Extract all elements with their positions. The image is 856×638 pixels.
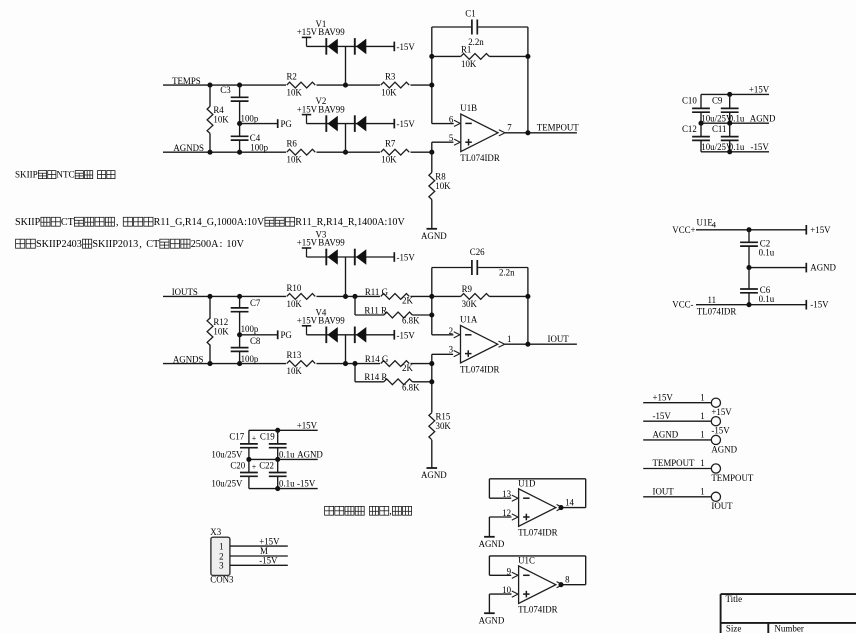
- connector IOUT: [643, 496, 711, 498]
- svg-text:BAV99: BAV99: [318, 238, 345, 248]
- capacitor C4: [239, 124, 241, 137]
- node R14_R junction: [429, 379, 434, 384]
- resistor R11_G: [381, 294, 410, 300]
- svg-text:R7: R7: [385, 139, 396, 149]
- svg-text:AGND: AGND: [810, 263, 836, 273]
- node TEMPOUT junction: [525, 130, 530, 135]
- svg-text:10K: 10K: [287, 366, 303, 376]
- node C11 bottom junction: [727, 149, 732, 154]
- node IOUTS/R12 junction: [207, 294, 212, 299]
- svg-text:2: 2: [449, 326, 453, 336]
- node PG junction: [237, 121, 242, 126]
- node IOUT junction: [525, 342, 530, 347]
- wire U1C feedback loop: [489, 555, 585, 557]
- capacitor C2: [748, 230, 750, 243]
- ground AGND below R15: [427, 467, 438, 469]
- svg-text:R9: R9: [462, 284, 473, 294]
- node R11 branch junction: [352, 294, 357, 299]
- svg-text:1: 1: [700, 430, 704, 440]
- svg-text:CON3: CON3: [210, 575, 234, 585]
- svg-text:R15: R15: [436, 412, 451, 422]
- svg-text:1: 1: [219, 541, 223, 551]
- wire TEMPS line: [163, 84, 286, 86]
- resistor R7: [381, 149, 410, 155]
- svg-text:C22: C22: [259, 460, 274, 470]
- capacitor C20: [248, 459, 250, 472]
- capacitor C11: [729, 123, 731, 136]
- wire +15V rail: [701, 93, 769, 95]
- svg-text:TEMPS: TEMPS: [172, 76, 201, 86]
- capacitor C19: [277, 430, 279, 444]
- svg-text:R14 G: R14 G: [365, 354, 389, 364]
- svg-text:Number: Number: [774, 624, 804, 633]
- svg-text:R14 R: R14 R: [364, 372, 387, 382]
- resistor R6: [287, 149, 316, 155]
- node R3 junction: [429, 83, 434, 88]
- svg-text:+: +: [252, 434, 257, 443]
- svg-text:C9: C9: [712, 95, 723, 105]
- svg-text:-15V: -15V: [711, 426, 730, 436]
- title block frame: [721, 593, 856, 595]
- svg-text:-15V: -15V: [653, 411, 672, 421]
- svg-text:BAV99: BAV99: [318, 27, 345, 37]
- wire inverting input net: [431, 27, 433, 124]
- resistor R8: [431, 152, 433, 172]
- svg-text:R11_R,R14_R,1400A:10V: R11_R,R14_R,1400A:10V: [295, 217, 405, 228]
- node C10 bottom junction: [698, 121, 703, 126]
- svg-text:,: ,: [116, 217, 119, 228]
- capacitor C3: [239, 85, 241, 97]
- node pin5/R8 junction: [429, 150, 434, 155]
- wire pin10 to ground: [489, 593, 511, 595]
- wire +15V rail 2: [249, 429, 318, 431]
- svg-text:VCC+: VCC+: [672, 225, 695, 235]
- op-amp U1C: [519, 566, 556, 604]
- connector AGND: [643, 439, 711, 441]
- diode V1 BAV99 clamp: [302, 36, 311, 38]
- wire IOUTS line: [163, 295, 286, 297]
- svg-text:30K: 30K: [462, 299, 478, 309]
- wire VCC- to -15V: [696, 304, 806, 306]
- capacitor C6: [748, 268, 750, 289]
- svg-text:2K: 2K: [402, 363, 413, 373]
- wire V3 node to IOUTS: [345, 257, 347, 296]
- svg-text:0.1u: 0.1u: [759, 294, 775, 304]
- svg-text:C1: C1: [465, 9, 475, 19]
- svg-text:+15V: +15V: [297, 104, 318, 114]
- svg-text:C11: C11: [712, 124, 726, 134]
- wire AGNDS line: [163, 151, 286, 153]
- svg-text:AGNDS: AGNDS: [173, 354, 204, 364]
- svg-text:SKIIP: SKIIP: [15, 170, 38, 180]
- ground AGND U1C: [484, 612, 495, 614]
- resistor R10: [287, 294, 316, 300]
- node PG junction 2: [237, 332, 242, 337]
- svg-text:R4: R4: [213, 105, 224, 115]
- svg-text:SKIIP: SKIIP: [15, 217, 41, 228]
- svg-text:0.1u: 0.1u: [759, 247, 775, 257]
- svg-text:+15V: +15V: [259, 536, 280, 546]
- node R1 left junction: [429, 54, 434, 59]
- svg-text:-15V: -15V: [751, 142, 770, 152]
- svg-text:+15V: +15V: [711, 407, 732, 417]
- svg-text:BAV99: BAV99: [318, 104, 345, 114]
- svg-text:CT: CT: [146, 239, 160, 250]
- svg-text:C7: C7: [250, 298, 261, 308]
- diode V4 BAV99 clamp: [302, 325, 311, 327]
- wire -15V rail 2: [249, 488, 318, 490]
- svg-text:TEMPOUT: TEMPOUT: [711, 473, 753, 483]
- svg-text:R13: R13: [287, 350, 302, 360]
- svg-text:-15V: -15V: [397, 330, 416, 340]
- svg-text:SKIIP2013: SKIIP2013: [92, 239, 138, 250]
- svg-text:C8: C8: [250, 336, 261, 346]
- node TEMPS/V1 junction: [343, 83, 348, 88]
- node C19 bottom junction: [275, 457, 280, 462]
- wire V2 node to AGNDS: [345, 124, 347, 153]
- text SKIIP CT note line2: [16, 239, 25, 248]
- svg-text:U1E: U1E: [697, 217, 713, 227]
- wire VCC+ to +15V: [696, 229, 806, 231]
- ground AGND U1D: [484, 536, 495, 538]
- resistor R14_G: [381, 361, 410, 367]
- power port PG: [277, 119, 279, 128]
- node C17 bottom junction: [246, 457, 251, 462]
- wire PG stub 2: [240, 334, 278, 336]
- svg-text:0.1u: 0.1u: [279, 479, 295, 489]
- svg-text:C26: C26: [470, 247, 485, 257]
- wire V4 node to AGNDS: [345, 335, 347, 364]
- op-amp U1A: [461, 325, 498, 363]
- svg-text:AGND: AGND: [750, 113, 776, 123]
- svg-text:+15V: +15V: [749, 85, 770, 95]
- svg-text:6: 6: [449, 114, 454, 124]
- svg-text:,: ,: [389, 506, 392, 517]
- capacitor C26: [432, 267, 471, 269]
- svg-text:10K: 10K: [213, 327, 229, 337]
- svg-text:-15V: -15V: [397, 119, 416, 129]
- svg-text:10K: 10K: [381, 88, 397, 98]
- node R9 left junction: [429, 294, 434, 299]
- wire AGND rail: [701, 122, 769, 124]
- svg-text:100p: 100p: [241, 354, 259, 364]
- svg-text:,: ,: [139, 239, 142, 250]
- svg-text:10K: 10K: [435, 181, 451, 191]
- svg-text:AGND: AGND: [711, 444, 737, 454]
- node C2/C6 junction: [746, 265, 751, 270]
- diode V2 BAV99 clamp: [302, 114, 311, 116]
- resistor R11_R: [354, 296, 356, 315]
- capacitor C8: [239, 335, 241, 348]
- svg-text:PG: PG: [281, 119, 293, 129]
- svg-text:10K: 10K: [461, 59, 477, 69]
- svg-text:+15V: +15V: [653, 392, 674, 402]
- wire PG stub: [240, 123, 278, 125]
- svg-text:+15V: +15V: [297, 238, 318, 248]
- svg-text:10u/25V: 10u/25V: [211, 479, 243, 489]
- power port +15V: [805, 225, 807, 235]
- resistor R12: [209, 296, 211, 318]
- svg-text:-15V: -15V: [397, 42, 416, 52]
- ground AGND below R8: [427, 228, 438, 230]
- svg-text:100p: 100p: [241, 113, 259, 123]
- svg-text:C3: C3: [220, 85, 231, 95]
- node AGNDS/V2 junction: [343, 150, 348, 155]
- connector +15V: [643, 402, 711, 404]
- svg-text:IOUT: IOUT: [653, 487, 675, 497]
- svg-text:CT: CT: [61, 217, 74, 228]
- svg-text:14: 14: [565, 497, 574, 507]
- svg-text:10K: 10K: [287, 88, 303, 98]
- svg-text:IOUT: IOUT: [711, 501, 733, 511]
- svg-text:AGNDS: AGNDS: [173, 143, 204, 153]
- svg-text:30K: 30K: [436, 421, 452, 431]
- svg-text:-15V: -15V: [810, 300, 829, 310]
- svg-text:7: 7: [507, 123, 512, 133]
- diode V3 BAV99 clamp: [302, 247, 311, 249]
- node R11_R junction: [429, 312, 434, 317]
- resistor R13: [287, 361, 316, 367]
- node AGNDS/C8 junction: [237, 361, 242, 366]
- power port -15V: [805, 300, 807, 310]
- node C22 bottom junction: [275, 486, 280, 491]
- svg-text:10K: 10K: [381, 155, 397, 165]
- wire pin12 to ground: [489, 516, 511, 518]
- op-amp U1B: [461, 114, 498, 152]
- svg-text:3: 3: [219, 561, 224, 571]
- svg-text:AGND: AGND: [421, 231, 447, 241]
- svg-text:R3: R3: [385, 72, 396, 82]
- wire V1 node to TEMPS: [345, 46, 347, 85]
- svg-text:+15V: +15V: [297, 420, 318, 430]
- connector TEMPOUT: [643, 468, 711, 470]
- wire U1B output TEMPOUT: [505, 132, 577, 134]
- svg-text:U1B: U1B: [460, 103, 477, 113]
- svg-text:TL074IDR: TL074IDR: [697, 306, 737, 316]
- svg-text:1: 1: [700, 458, 704, 468]
- svg-text:TL074IDR: TL074IDR: [518, 605, 558, 615]
- svg-text:10V: 10V: [226, 239, 244, 250]
- svg-text:R8: R8: [435, 172, 446, 182]
- node AGNDS/C4 junction: [237, 150, 242, 155]
- svg-text:R12: R12: [213, 317, 228, 327]
- svg-text:R11 R: R11 R: [364, 305, 387, 315]
- svg-text:TL074IDR: TL074IDR: [460, 153, 500, 163]
- node C19 top junction: [275, 428, 280, 433]
- node IOUTS/C7 junction: [237, 294, 242, 299]
- power port PG 2: [277, 330, 279, 339]
- node TEMPS/C3 junction: [237, 83, 242, 88]
- wire inverting input net U1A: [431, 268, 433, 335]
- svg-text:-15V: -15V: [259, 556, 278, 566]
- node AGNDS/V4 junction: [343, 361, 348, 366]
- svg-text:+: +: [252, 462, 257, 471]
- svg-text::: :: [220, 239, 223, 250]
- wire output feedback vertical 2: [527, 268, 529, 345]
- node C9 top junction: [727, 92, 732, 97]
- text hall sampling note: [325, 506, 334, 515]
- svg-text:U1A: U1A: [460, 315, 478, 325]
- svg-text:6.8K: 6.8K: [402, 316, 420, 326]
- svg-text:R11_G,R14_G,1000A:10V: R11_G,R14_G,1000A:10V: [154, 217, 265, 228]
- svg-text:TL074IDR: TL074IDR: [518, 528, 558, 538]
- svg-text:R2: R2: [287, 72, 297, 82]
- node U1D output: [558, 505, 563, 510]
- svg-text:AGND: AGND: [297, 450, 323, 460]
- svg-text:C10: C10: [682, 95, 697, 105]
- svg-text:R10: R10: [287, 283, 302, 293]
- svg-text:10K: 10K: [213, 114, 229, 124]
- svg-text:C12: C12: [682, 124, 697, 134]
- op-amp U1D: [519, 489, 556, 526]
- svg-text:NTC: NTC: [56, 170, 74, 180]
- svg-text:1: 1: [700, 411, 704, 421]
- svg-text:IOUT: IOUT: [548, 334, 570, 344]
- svg-text:C20: C20: [230, 460, 245, 470]
- svg-text:U1C: U1C: [518, 556, 535, 566]
- svg-text:-15V: -15V: [397, 253, 416, 263]
- node C9 bottom junction: [727, 121, 732, 126]
- wire pin5 connection: [431, 142, 433, 152]
- resistor R1: [432, 55, 461, 57]
- wire output feedback vertical: [527, 27, 529, 133]
- capacitor C12: [700, 123, 702, 136]
- svg-text:1: 1: [700, 392, 704, 402]
- svg-text:+15V: +15V: [297, 27, 318, 37]
- svg-text:2K: 2K: [402, 296, 413, 306]
- node TEMPS/R4 junction: [207, 83, 212, 88]
- connector -15V: [643, 420, 711, 422]
- node IOUTS/V3 junction: [343, 294, 348, 299]
- svg-text:1: 1: [507, 334, 511, 344]
- capacitor C9: [729, 94, 731, 108]
- svg-text:TEMPOUT: TEMPOUT: [653, 458, 695, 468]
- power port AGND: [805, 263, 807, 273]
- wire AGNDS lower line: [163, 363, 286, 365]
- svg-text:TEMPOUT: TEMPOUT: [537, 123, 579, 133]
- capacitor C1: [432, 26, 471, 28]
- svg-text:+15V: +15V: [297, 316, 318, 326]
- svg-text:0.1u: 0.1u: [279, 450, 295, 460]
- svg-text:4: 4: [712, 220, 717, 230]
- capacitor C10: [700, 94, 702, 108]
- svg-text:100p: 100p: [241, 324, 259, 334]
- svg-text:AGND: AGND: [479, 615, 505, 625]
- svg-text:VCC-: VCC-: [672, 299, 693, 309]
- svg-text:8: 8: [565, 575, 570, 585]
- svg-text:2500A: 2500A: [191, 239, 219, 250]
- node C2 top: [746, 227, 751, 232]
- svg-text:SKIIP2403: SKIIP2403: [36, 239, 82, 250]
- svg-text:100p: 100p: [250, 142, 268, 152]
- svg-text:0.1u: 0.1u: [729, 113, 745, 123]
- svg-text:TL074IDR: TL074IDR: [460, 365, 500, 375]
- svg-text:IOUTS: IOUTS: [172, 287, 198, 297]
- resistor R2: [287, 82, 316, 88]
- svg-text:C19: C19: [260, 431, 275, 441]
- svg-text:Title: Title: [726, 594, 743, 604]
- svg-text:10K: 10K: [287, 299, 303, 309]
- svg-text:PG: PG: [281, 330, 293, 340]
- svg-text:10K: 10K: [287, 155, 303, 165]
- node R14_G junction: [429, 361, 434, 366]
- wire U1A output IOUT: [505, 343, 577, 345]
- resistor R3: [381, 82, 410, 88]
- svg-text:-15V: -15V: [297, 479, 316, 489]
- resistor R9: [432, 295, 461, 297]
- svg-text:6.8K: 6.8K: [402, 382, 420, 392]
- resistor R14_R: [354, 364, 356, 382]
- svg-text:C17: C17: [229, 431, 244, 441]
- svg-text:R1: R1: [461, 44, 471, 54]
- svg-text:0.1u: 0.1u: [729, 142, 745, 152]
- resistor R4: [209, 85, 211, 106]
- svg-text:R11 G: R11 G: [365, 287, 389, 297]
- capacitor C17: [248, 430, 250, 444]
- svg-text:BAV99: BAV99: [318, 316, 345, 326]
- node AGNDS/R12 junction: [207, 361, 212, 366]
- svg-text:11: 11: [708, 295, 717, 305]
- svg-text:3: 3: [449, 345, 454, 355]
- svg-text:+15V: +15V: [810, 225, 831, 235]
- wire pin3 connection: [432, 353, 453, 355]
- svg-text:AGND: AGND: [421, 470, 447, 480]
- capacitor C7: [239, 296, 241, 308]
- svg-text:R6: R6: [287, 139, 298, 149]
- wire U1D feedback loop: [489, 478, 585, 480]
- capacitor C22: [277, 459, 279, 472]
- node C6 bottom: [746, 302, 751, 307]
- svg-text:U1D: U1D: [518, 478, 536, 488]
- svg-text:Size: Size: [726, 624, 742, 633]
- wire AGND stub: [749, 267, 806, 269]
- node R1 right junction: [525, 54, 530, 59]
- node R14 branch junction: [352, 361, 357, 366]
- node AGNDS/R4 junction: [207, 150, 212, 155]
- svg-text:AGND: AGND: [653, 430, 679, 440]
- resistor R15: [429, 413, 435, 440]
- wire AGND rail 2: [249, 458, 318, 460]
- svg-text:AGND: AGND: [479, 539, 505, 549]
- svg-text:2.2n: 2.2n: [499, 267, 515, 277]
- svg-text:10u/25V: 10u/25V: [211, 450, 243, 460]
- svg-text:X3: X3: [210, 527, 221, 537]
- svg-text:1: 1: [700, 487, 704, 497]
- wire -15V rail: [701, 151, 769, 153]
- node U1C output: [558, 582, 563, 587]
- node R9 right junction: [525, 294, 530, 299]
